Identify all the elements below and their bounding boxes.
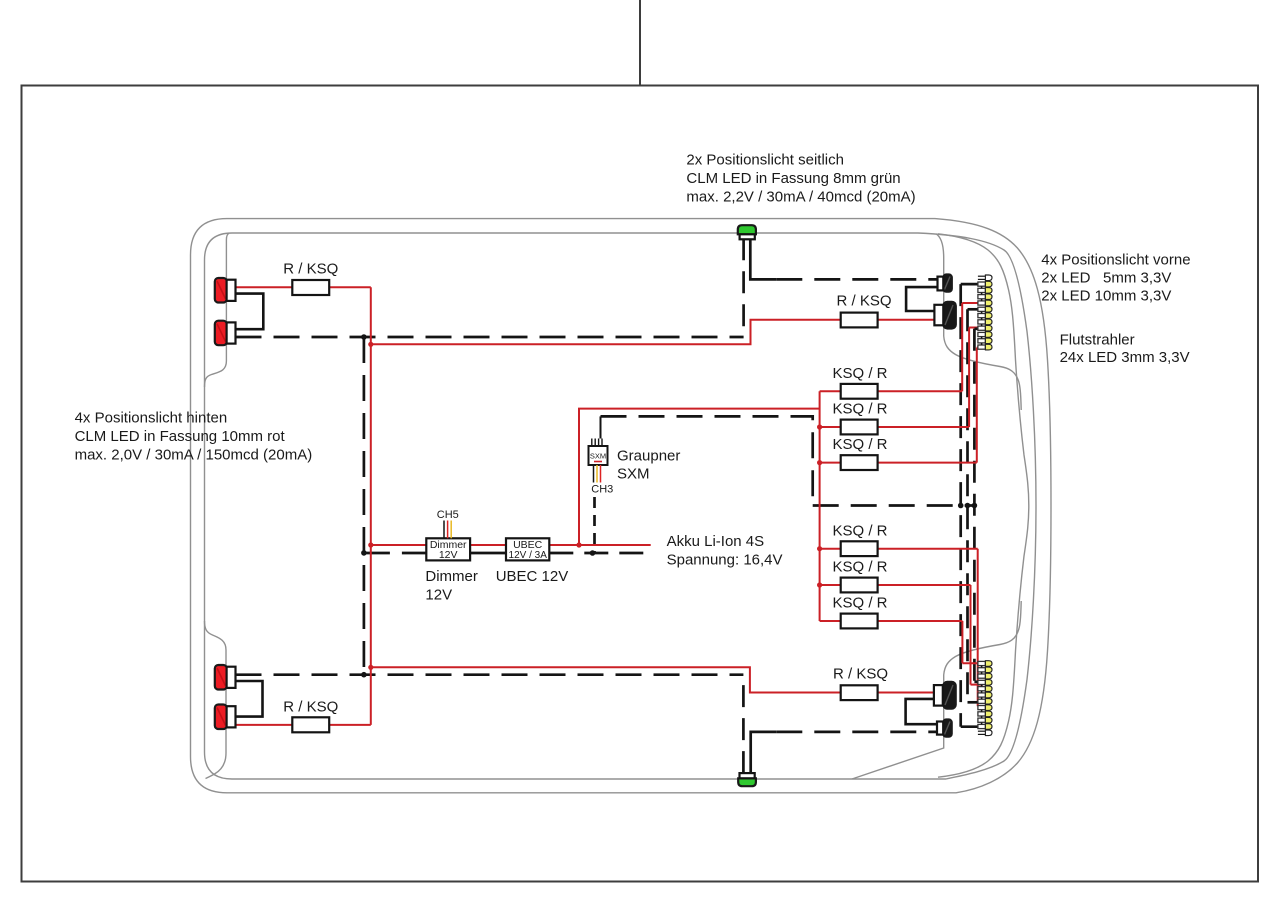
floodlight LED 7 (985, 313, 992, 319)
svg-text:UBEC 12V: UBEC 12V (496, 568, 569, 585)
floodlight LED lead 12 (978, 345, 986, 349)
CH3 servo wires (593, 465, 595, 483)
junction: battery positive to flood feed (576, 542, 581, 547)
LED green side light top body (738, 225, 756, 234)
LED stern top 1 body (215, 278, 227, 303)
resistor KSQ/R 1 (841, 384, 878, 399)
svg-text:2x Positionslicht seitlich: 2x Positionslicht seitlich (686, 152, 844, 169)
floodlight LED lead 7 (978, 314, 986, 318)
floodlight LED 3 (985, 717, 992, 723)
wire: negative bus stern bottom (dashed) (236, 673, 744, 676)
floodlight LED 1 (985, 275, 992, 281)
junction: red node bottom (368, 665, 373, 670)
hull deck line, bow neck lower (852, 601, 1021, 779)
wire: KSQ/R row 2 leads (820, 426, 841, 428)
floodlight LED 9 (985, 680, 992, 686)
LED bow bottom 10mm body (943, 682, 956, 709)
floodlight LED lead 10 (978, 674, 986, 678)
wire: bow lower R/KSQ to LED socket (878, 692, 934, 694)
junction: negative node at battery bus (361, 550, 367, 556)
UBEC module box (506, 538, 549, 560)
floodlight LED lead 2 (978, 282, 986, 286)
LED green side light bottom socket (740, 773, 755, 778)
floodlight LED lead 4 (978, 295, 986, 299)
svg-text:max. 2,2V / 30mA / 40mcd (20mA: max. 2,2V / 30mA / 40mcd (20mA) (686, 189, 915, 206)
wire: red bus to bow upper position light (371, 320, 841, 345)
floodlight LED lead 5 (978, 706, 986, 710)
svg-text:CLM LED in Fassung 8mm grün: CLM LED in Fassung 8mm grün (686, 170, 900, 187)
wire: KSQ/R row 1 leads (820, 390, 841, 392)
LED stern top 2 body (215, 321, 227, 346)
resistor R/KSQ bow bottom (841, 685, 878, 700)
LED stern bottom 2 body (215, 705, 227, 730)
svg-text:2x LED 5mm 3,3V: 2x LED 5mm 3,3V (1041, 270, 1171, 287)
svg-text:24x LED 3mm 3,3V: 24x LED 3mm 3,3V (1060, 349, 1190, 366)
svg-text:R / KSQ: R / KSQ (283, 699, 338, 716)
svg-text:KSQ / R: KSQ / R (832, 595, 887, 612)
resistor KSQ/R 6 (841, 614, 878, 629)
wire: KSQ/R row 3 leads (820, 462, 841, 464)
LED bow top 10mm body (943, 302, 956, 329)
LED bow bottom 5mm socket (937, 722, 943, 735)
floodlight LED 3 (985, 288, 992, 294)
svg-text:SXM: SXM (590, 452, 606, 461)
floodlight LED lead 4 (978, 712, 986, 716)
floodlight LED 12 (985, 344, 992, 350)
floodlight LED lead 9 (978, 326, 986, 330)
svg-text:KSQ / R: KSQ / R (832, 365, 887, 382)
hull deck line, stern bottom section (205, 621, 227, 779)
junction: floodlight return node 3 (972, 503, 978, 509)
floodlight LED lead 8 (978, 687, 986, 691)
hull deck line, stern top section (205, 233, 230, 387)
floodlight LED lead 10 (978, 332, 986, 336)
LED green side light top socket (740, 234, 755, 239)
svg-text:KSQ / R: KSQ / R (832, 522, 887, 539)
floodlight LED 6 (985, 307, 992, 313)
floodlight LED 1 (985, 730, 992, 736)
svg-text:R / KSQ: R / KSQ (836, 292, 891, 309)
floodlight LED 8 (985, 319, 992, 325)
svg-text:R / KSQ: R / KSQ (833, 666, 888, 683)
floodlight LED 9 (985, 325, 992, 331)
floodlight LED lead 2 (978, 724, 986, 728)
wire: red bus to bow lower position light (371, 667, 841, 692)
junction: KSQ/R bus node y=548.7 (817, 546, 822, 551)
svg-text:CH3: CH3 (591, 484, 613, 496)
junction: red node battery (368, 542, 373, 547)
wire: negative bus to floodlight returns (dashed) (813, 504, 976, 507)
CH5 servo wires (443, 521, 445, 539)
svg-text:12V: 12V (425, 586, 452, 603)
wire: floodlight series links bottom (981, 723, 983, 725)
wire: series bracket stern top pair (236, 294, 264, 330)
resistor KSQ/R 2 (841, 420, 878, 435)
junction: KSQ/R bus node y=585 (817, 582, 822, 587)
wire: flood group feeds to LED leads (962, 302, 983, 304)
wire: KSQ/R row 4 leads (820, 548, 841, 550)
floodlight LED lead 6 (978, 699, 986, 703)
hull inner outline (205, 233, 1037, 779)
wire: battery negative bus (dashed) (364, 552, 426, 555)
junction: red node top (368, 342, 373, 347)
wire: KSQ/R row 5 leads (820, 584, 841, 586)
wire: floodlight series links top (981, 286, 983, 288)
svg-text:CH5: CH5 (437, 509, 459, 521)
hull deck line, bow upper (938, 234, 1029, 777)
resistor KSQ/R 5 (841, 578, 878, 593)
svg-text:Graupner: Graupner (617, 447, 680, 464)
resistor R/KSQ stern bottom (292, 717, 329, 732)
wire: battery positive bus (371, 544, 427, 546)
LED stern bottom 1 socket (227, 667, 236, 688)
floodlight LED lead 11 (978, 339, 986, 343)
floodlight LED 6 (985, 699, 992, 705)
svg-text:Dimmer: Dimmer (425, 568, 478, 585)
svg-text:KSQ / R: KSQ / R (832, 436, 887, 453)
wire: floodlight positive bus vertical (819, 391, 821, 621)
LED bow top 5mm body (943, 274, 952, 291)
svg-text:Akku Li-Ion 4S: Akku Li-Ion 4S (667, 533, 765, 550)
wire: green LED bottom left lead (dashed up to bus) (742, 675, 745, 773)
svg-text:KSQ / R: KSQ / R (832, 401, 887, 418)
LED bow top 10mm socket (934, 305, 943, 326)
floodlight LED lead 1 (978, 275, 986, 277)
SXM receiver pins (591, 439, 593, 447)
wire: green LED top left lead (dashed down to bus) (742, 238, 745, 337)
floodlight LED lead 8 (978, 320, 986, 324)
floodlight LED 2 (985, 724, 992, 730)
hull deck line, bow neck upper (936, 234, 1021, 410)
floodlight LED lead 7 (978, 693, 986, 697)
wire: flood feed riser (579, 409, 820, 545)
wire: KSQ/R row 6 leads (820, 620, 841, 622)
floodlight LED 8 (985, 686, 992, 692)
svg-text:12V / 3A: 12V / 3A (509, 550, 548, 561)
floodlight LED 2 (985, 281, 992, 287)
LED bow bottom 10mm socket (934, 685, 943, 706)
resistor R/KSQ stern top (292, 280, 329, 295)
resistor KSQ/R 3 (841, 455, 878, 470)
floodlight LED lead 11 (978, 668, 986, 672)
svg-text:4x Positionslicht hinten: 4x Positionslicht hinten (75, 409, 228, 426)
title block divider line (639, 0, 641, 86)
svg-text:Flutstrahler: Flutstrahler (1060, 332, 1135, 349)
wire: floodlight return vertical 3 (dashed) (973, 329, 976, 682)
junction: floodlight return node 2 (965, 503, 971, 509)
floodlight LED 10 (985, 673, 992, 679)
LED stern bottom 1 body (215, 665, 227, 690)
wire: red feed stern top LED to R/KSQ (236, 286, 293, 288)
floodlight LED 4 (985, 294, 992, 300)
wire: green LED top right lead to bow LED (dashed) (750, 238, 776, 279)
junction: CH3 to battery negative (590, 550, 596, 556)
junction: KSQ/R bus node y=427 (817, 424, 822, 429)
LED bow bottom 5mm body (943, 719, 952, 736)
svg-text:SXM: SXM (617, 466, 650, 483)
svg-text:Spannung: 16,4V: Spannung: 16,4V (667, 551, 783, 568)
floodlight LED lead 6 (978, 307, 986, 311)
wire: R/KSQ to main red bus (top) (329, 286, 371, 288)
LED stern top 2 socket (227, 322, 236, 343)
floodlight LED 11 (985, 338, 992, 344)
junction: stern bottom negative node (361, 672, 367, 678)
junction: floodlight return node 1 (958, 503, 964, 509)
resistor R/KSQ bow top (841, 313, 878, 328)
svg-text:12V: 12V (439, 549, 458, 561)
svg-text:R / KSQ: R / KSQ (283, 261, 338, 278)
wire: flood group returns to LED leads (961, 283, 978, 286)
wire: stern bottom LED to R/KSQ (236, 724, 293, 726)
LED green side light bottom body (738, 778, 756, 786)
floodlight LED 4 (985, 711, 992, 717)
floodlight LED lead 9 (978, 680, 986, 684)
svg-text:4x Positionslicht vorne: 4x Positionslicht vorne (1041, 251, 1190, 268)
wire: main red bus left vertical (370, 287, 372, 725)
hull outer outline (191, 219, 1052, 793)
floodlight LED lead 5 (978, 301, 986, 305)
wire: series bracket bow top pair (906, 287, 937, 311)
wire: series bracket bow bottom pair (906, 699, 937, 724)
floodlight LED 12 (985, 661, 992, 667)
wire: bow upper R/KSQ to LED socket (878, 319, 935, 321)
floodlight LED lead 3 (978, 718, 986, 722)
SXM receiver box (589, 446, 608, 465)
floodlight LED lead 3 (978, 288, 986, 292)
LED stern bottom 2 socket (227, 706, 236, 727)
wire: CH3 servo lead (dashed) (593, 497, 596, 553)
svg-text:max. 2,0V / 30mA / 150mcd (20m: max. 2,0V / 30mA / 150mcd (20mA) (75, 446, 313, 463)
wire: floodlight return vertical 1 (dashed) (959, 284, 962, 727)
wire: floodlight return vertical 2 (dashed) (966, 309, 969, 702)
svg-text:2x LED 10mm 3,3V: 2x LED 10mm 3,3V (1041, 288, 1171, 305)
wire: SXM signal/negative to bow (dashed) (601, 416, 813, 505)
wire: green LED bottom right lead to bow LED (dashed) (751, 732, 777, 773)
junction: stern top negative node (361, 334, 367, 340)
LED bow top 5mm socket (938, 277, 944, 291)
floodlight LED 5 (985, 300, 992, 306)
LED stern top 1 socket (227, 280, 236, 301)
junction: KSQ/R bus node y=462.6 (817, 460, 822, 465)
floodlight LED 7 (985, 692, 992, 698)
svg-text:KSQ / R: KSQ / R (832, 559, 887, 576)
floodlight LED lead 12 (978, 661, 986, 665)
floodlight LED 10 (985, 332, 992, 338)
wire: SXM to negative bus (600, 416, 602, 438)
resistor KSQ/R 4 (841, 541, 878, 556)
svg-text:CLM LED in Fassung 10mm rot: CLM LED in Fassung 10mm rot (75, 428, 286, 445)
floodlight LED 5 (985, 705, 992, 711)
wire: negative riser left (dashed vertical) (363, 337, 366, 675)
wire: series bracket stern bottom pair (236, 681, 263, 717)
dimmer module box (426, 538, 470, 560)
floodlight LED lead 1 (978, 730, 986, 732)
floodlight LED 11 (985, 667, 992, 673)
wire: negative bus stern top (dashed) (236, 336, 744, 339)
